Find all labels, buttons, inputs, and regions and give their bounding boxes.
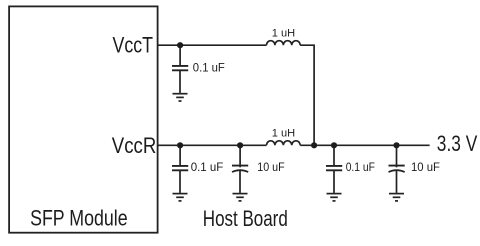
svg-text:0.1 uF: 0.1 uF bbox=[346, 162, 375, 174]
inductor L2 bbox=[267, 141, 301, 146]
junction dot VccR / C3 bbox=[237, 142, 243, 148]
capacitor C5 10 uF polarized bbox=[389, 145, 405, 193]
svg-text:VccT: VccT bbox=[113, 33, 154, 58]
junction dot rail / C5 bbox=[393, 142, 399, 148]
ground GND3 bbox=[233, 194, 248, 201]
capacitor C3 10 uF polarized bbox=[232, 145, 248, 193]
capacitor C4 0.1 uF bbox=[326, 145, 342, 193]
svg-text:0.1 uF: 0.1 uF bbox=[193, 63, 225, 75]
SFP Module box U1 bbox=[9, 6, 158, 232]
capacitor C1 0.1 uF bbox=[172, 45, 188, 93]
wire VccR rail from L2 to 3.3V bbox=[300, 144, 429, 146]
svg-text:0.1 uF: 0.1 uF bbox=[191, 162, 224, 174]
svg-text:Host Board: Host Board bbox=[203, 206, 288, 231]
svg-text:1 uH: 1 uH bbox=[272, 128, 295, 140]
ground GND2 bbox=[173, 194, 188, 201]
svg-text:3.3 V: 3.3 V bbox=[437, 131, 478, 156]
svg-text:SFP Module: SFP Module bbox=[30, 206, 128, 231]
wire VccT rail from box to L1 bbox=[157, 44, 267, 46]
inductor L1 bbox=[267, 41, 301, 46]
junction dot VccT branch joins VccR rail bbox=[311, 142, 317, 148]
wire VccR rail from box to L2 bbox=[158, 144, 267, 146]
ground GND1 bbox=[173, 94, 188, 101]
svg-text:10 uF: 10 uF bbox=[411, 162, 440, 174]
junction dot node VccT / C1 bbox=[177, 42, 183, 48]
wire from L1 to corner and down to VccR rail bbox=[300, 45, 314, 145]
svg-text:1 uH: 1 uH bbox=[272, 28, 295, 40]
capacitor C2 0.1 uF bbox=[172, 145, 188, 193]
junction dot VccR / C2 bbox=[177, 142, 183, 148]
svg-text:VccR: VccR bbox=[112, 133, 157, 158]
ground GND5 bbox=[389, 194, 404, 201]
svg-text:10 uF: 10 uF bbox=[257, 162, 284, 174]
junction dot rail / C4 bbox=[331, 142, 337, 148]
ground GND4 bbox=[327, 194, 342, 201]
